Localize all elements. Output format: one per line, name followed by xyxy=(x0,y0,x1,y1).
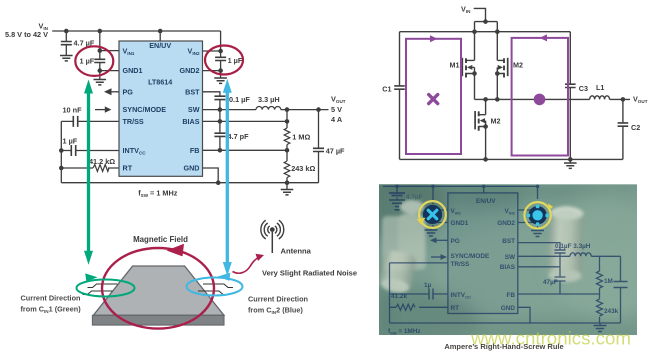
svg-text:GND1: GND1 xyxy=(451,220,469,227)
svg-text:Very Slight Radiated Noise: Very Slight Radiated Noise xyxy=(262,268,357,277)
svg-text:PG: PG xyxy=(123,87,134,96)
svg-text:C3: C3 xyxy=(579,84,588,93)
svg-text:47 µF: 47 µF xyxy=(326,146,345,155)
svg-text:RT: RT xyxy=(123,164,133,173)
svg-text:EN/UV: EN/UV xyxy=(149,41,171,50)
svg-text:FB: FB xyxy=(190,146,200,155)
svg-text:Current Direction: Current Direction xyxy=(21,294,81,303)
svg-text:from CIN1 (Green): from CIN1 (Green) xyxy=(21,305,82,315)
svg-text:TR/SS: TR/SS xyxy=(451,261,471,268)
svg-text:Antenna: Antenna xyxy=(281,247,312,256)
svg-text:1 MΩ: 1 MΩ xyxy=(292,132,310,141)
svg-text:1 µF: 1 µF xyxy=(80,57,95,66)
svg-text:Ampere’s Right-Hand-Screw Rule: Ampere’s Right-Hand-Screw Rule xyxy=(444,342,563,351)
svg-text:0.1 µF: 0.1 µF xyxy=(229,95,250,104)
svg-text:SYNC/MODE: SYNC/MODE xyxy=(123,105,167,114)
svg-text:GND1: GND1 xyxy=(123,66,143,75)
svg-text:RT: RT xyxy=(451,305,460,312)
svg-text:4.7µF: 4.7µF xyxy=(406,194,423,201)
svg-text:1 µF: 1 µF xyxy=(63,136,78,145)
svg-text:BIAS: BIAS xyxy=(500,264,516,271)
svg-text:LT8614: LT8614 xyxy=(148,78,172,87)
svg-text:4 A: 4 A xyxy=(331,115,343,124)
svg-text:GND2: GND2 xyxy=(180,66,200,75)
svg-text:SW: SW xyxy=(505,254,516,261)
svg-text:1 µF: 1 µF xyxy=(228,56,243,65)
svg-text:1M: 1M xyxy=(604,278,613,285)
svg-text:41.2 kΩ: 41.2 kΩ xyxy=(89,157,115,166)
svg-text:L1: L1 xyxy=(596,83,604,92)
svg-text:0.1µF 3.3µH: 0.1µF 3.3µH xyxy=(555,243,591,250)
svg-text:243 kΩ: 243 kΩ xyxy=(291,164,315,173)
svg-text:4.7 pF: 4.7 pF xyxy=(228,132,250,141)
svg-text:41.2k: 41.2k xyxy=(391,293,407,300)
svg-text:from CIN2 (Blue): from CIN2 (Blue) xyxy=(248,306,303,316)
svg-text:BST: BST xyxy=(185,87,200,96)
svg-text:BIAS: BIAS xyxy=(182,117,199,126)
svg-text:10 nF: 10 nF xyxy=(63,105,83,114)
svg-text:Current Direction: Current Direction xyxy=(248,295,308,304)
svg-text:EN/UV: EN/UV xyxy=(476,198,496,205)
svg-text:243k: 243k xyxy=(604,308,619,315)
svg-text:GND2: GND2 xyxy=(497,220,515,227)
svg-text:GND: GND xyxy=(184,164,200,173)
svg-text:FB: FB xyxy=(506,292,515,299)
svg-text:SYNC/MODE: SYNC/MODE xyxy=(451,253,490,260)
svg-text:1µ: 1µ xyxy=(424,282,432,289)
svg-text:M2: M2 xyxy=(513,61,523,70)
svg-text:GND: GND xyxy=(501,305,516,312)
svg-text:BST: BST xyxy=(502,238,515,245)
svg-text:5 V: 5 V xyxy=(331,105,342,114)
svg-text:3.3 µH: 3.3 µH xyxy=(258,95,280,104)
svg-text:SW: SW xyxy=(188,105,200,114)
svg-text:Magnetic Field: Magnetic Field xyxy=(133,235,188,244)
svg-text:47µF: 47µF xyxy=(543,279,558,286)
svg-text:C1: C1 xyxy=(382,85,391,94)
svg-text:M1: M1 xyxy=(450,61,460,70)
svg-text:TR/SS: TR/SS xyxy=(123,117,144,126)
svg-text:C2: C2 xyxy=(631,123,640,132)
svg-text:PG: PG xyxy=(451,238,460,245)
svg-text:M2: M2 xyxy=(491,117,501,126)
svg-text:5.8 V to 42 V: 5.8 V to 42 V xyxy=(5,30,48,39)
